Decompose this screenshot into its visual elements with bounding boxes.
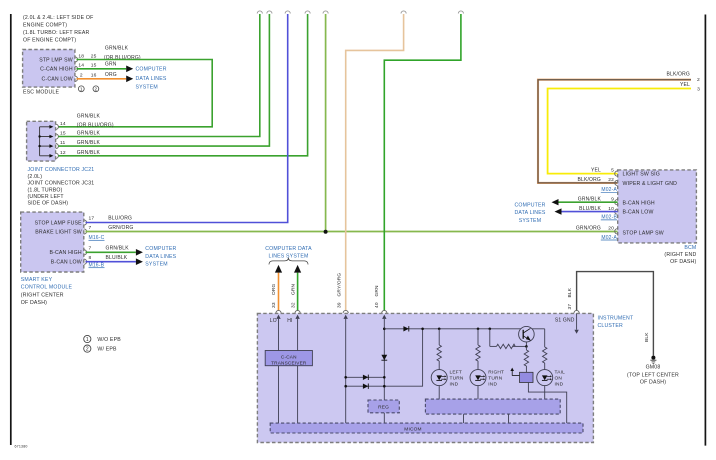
REG block xyxy=(368,400,399,413)
wire GRN/BLK: JC21 pin 11 up to top xyxy=(58,14,269,146)
svg-text:(1.8L TURBO): (1.8L TURBO) xyxy=(28,187,63,193)
node: computer data lines system (cluster) xyxy=(265,246,312,260)
wire ORG: data-lines arrow down to cluster pin 33 xyxy=(278,273,280,311)
wire: link pin39 to pin40 (upper) xyxy=(346,376,385,378)
svg-text:39: 39 xyxy=(336,302,342,308)
junction: GRN/ORG tap xyxy=(324,230,328,234)
BCM pin numbers 5 22 9 10 20 xyxy=(608,168,614,232)
svg-text:20: 20 xyxy=(608,226,614,232)
wire value labels for ESC rows xyxy=(104,46,141,78)
smart key pin numbers 17 7 7 8 xyxy=(89,215,95,261)
BCM box xyxy=(618,170,697,243)
svg-text:STOP LAMP SW: STOP LAMP SW xyxy=(623,231,664,237)
svg-text:CONTROL MODULE: CONTROL MODULE xyxy=(21,285,73,291)
svg-text:GRN/ORG: GRN/ORG xyxy=(108,225,133,231)
svg-text:ORG: ORG xyxy=(271,283,277,295)
svg-text:CLUSTER: CLUSTER xyxy=(598,323,624,329)
internal pin arrows (up) xyxy=(276,315,386,319)
svg-text:OF DASH): OF DASH) xyxy=(640,380,666,386)
svg-text:16: 16 xyxy=(91,73,97,79)
arrow up from cluster HI (GRN) xyxy=(294,265,301,273)
top edge connector bumps for riser wires xyxy=(257,11,463,14)
wire: bar stub 1 xyxy=(463,414,465,423)
wire BLU/BLK: arrow to BCM B-CAN LOW pin 10 xyxy=(562,211,618,213)
svg-text:SYSTEM: SYSTEM xyxy=(519,218,541,224)
JC21 pin bumps xyxy=(56,124,59,158)
svg-text:B-CAN HIGH: B-CAN HIGH xyxy=(623,200,655,206)
MICOM block xyxy=(270,423,583,433)
svg-text:ENGINE COMPT): ENGINE COMPT) xyxy=(23,22,67,28)
svg-text:TRANSCEIVER: TRANSCEIVER xyxy=(271,360,307,365)
LED tail on ind xyxy=(537,370,553,386)
connector ref M02-B xyxy=(601,215,618,221)
svg-text:22: 22 xyxy=(608,177,614,183)
svg-text:GRN/BLK: GRN/BLK xyxy=(106,246,130,252)
svg-text:INSTRUMENT: INSTRUMENT xyxy=(598,315,634,321)
ESC pin numbers 18 25 / 14 15 / 2 16 xyxy=(78,53,96,78)
svg-text:15: 15 xyxy=(91,63,97,69)
resistor R2 (right turn) xyxy=(476,329,480,370)
svg-text:5: 5 xyxy=(611,168,614,174)
wire: bar stub 2 xyxy=(508,414,510,423)
svg-text:8: 8 xyxy=(89,255,92,261)
svg-text:COMPUTER DATA: COMPUTER DATA xyxy=(265,246,312,252)
right page border xyxy=(704,15,706,446)
resistor R4 (vertical to driver) xyxy=(524,346,528,372)
junction dots on pin39/pin40 leads xyxy=(344,328,385,388)
svg-text:ESC MODULE: ESC MODULE xyxy=(23,90,59,96)
svg-text:B-CAN LOW: B-CAN LOW xyxy=(51,260,82,266)
svg-text:37: 37 xyxy=(567,304,573,310)
svg-text:BCM: BCM xyxy=(684,245,696,251)
svg-text:18: 18 xyxy=(78,53,84,59)
svg-text:JOINT CONNECTOR JC21: JOINT CONNECTOR JC21 xyxy=(28,167,95,173)
LED left turn ind xyxy=(431,370,447,386)
svg-text:W/ EPB: W/ EPB xyxy=(97,347,117,353)
junction: emitter node xyxy=(525,345,528,348)
svg-text:DATA LINES: DATA LINES xyxy=(514,210,545,216)
junction dots on rail xyxy=(421,328,491,331)
internal S1 GND stub with down arrow xyxy=(574,313,578,333)
diode D4 (right, on rail) xyxy=(403,326,408,331)
svg-text:SYSTEM: SYSTEM xyxy=(136,84,158,90)
legend marker 2: W/ EPB xyxy=(84,345,117,353)
smart key caption block xyxy=(21,277,73,306)
legend marker 1: W/O EPB xyxy=(84,335,122,343)
svg-text:TURN: TURN xyxy=(488,376,502,382)
JC21 bus junction dots xyxy=(38,135,40,137)
svg-text:2: 2 xyxy=(80,73,83,79)
arrow up from cluster LO (ORG) xyxy=(275,265,282,273)
variant marker 2 xyxy=(93,86,99,92)
wire: link pin39 through pin40 up to rail (lower) xyxy=(346,329,423,386)
logic bar block xyxy=(425,399,560,414)
svg-text:SMART KEY: SMART KEY xyxy=(21,277,53,283)
connector ref M02-A (top) xyxy=(601,187,618,193)
svg-text:2: 2 xyxy=(95,87,98,92)
svg-text:2: 2 xyxy=(697,77,700,83)
svg-text:GRN/ORG: GRN/ORG xyxy=(576,226,601,232)
svg-text:COMPUTER: COMPUTER xyxy=(514,202,545,208)
svg-text:(UNDER LEFT: (UNDER LEFT xyxy=(28,194,65,200)
instrument cluster caption xyxy=(598,315,634,329)
svg-text:STP LMP SW: STP LMP SW xyxy=(39,57,73,63)
svg-text:YEL: YEL xyxy=(680,82,690,88)
wire: left turn LED to bar xyxy=(438,386,440,400)
svg-text:(OR BLU/ORG): (OR BLU/ORG) xyxy=(77,122,114,128)
cluster pin bumps 33 32 39 40 37 xyxy=(276,310,579,313)
LED right turn ind xyxy=(470,370,486,386)
resistor R3 (base, horizontal) xyxy=(490,329,527,349)
arrow to computer data lines (B-CAN HIGH) xyxy=(136,249,143,256)
wire GRN/ORG: brake light sw pin 7 to BCM stop lamp sw pin 20 xyxy=(86,231,618,233)
wire: pin 39 lead down to MICOM xyxy=(345,319,347,423)
JC21 pin numbers 14 15 11 12 xyxy=(60,121,66,156)
arrow to computer data lines (B-CAN LOW) xyxy=(136,258,143,265)
svg-text:IND: IND xyxy=(555,382,564,388)
svg-text:7: 7 xyxy=(89,225,92,231)
wire BLU/BLK: smart key B-CAN LOW to arrow xyxy=(86,261,136,263)
svg-text:COMPUTER: COMPUTER xyxy=(145,246,176,252)
svg-text:LINES SYSTEM: LINES SYSTEM xyxy=(269,253,309,259)
node: computer data lines system (ESC) xyxy=(136,67,167,91)
variant marker 1 xyxy=(78,86,84,92)
instrument cluster box xyxy=(257,313,593,442)
svg-text:(RIGHT CENTER: (RIGHT CENTER xyxy=(21,292,64,298)
svg-text:STOP LAMP FUSE: STOP LAMP FUSE xyxy=(35,220,83,226)
svg-text:BRAKE LIGHT SW: BRAKE LIGHT SW xyxy=(35,230,82,236)
svg-text:(1.8L TURBO: LEFT REAR: (1.8L TURBO: LEFT REAR xyxy=(23,30,89,36)
svg-text:(TOP LEFT CENTER: (TOP LEFT CENTER xyxy=(627,373,679,379)
svg-text:14: 14 xyxy=(60,121,66,127)
wire GRN: ESC C-CAN HIGH to data-lines arrow xyxy=(77,68,127,70)
wire: tail LED to bar xyxy=(544,386,546,400)
arrow to computer data lines (C-CAN LOW) xyxy=(126,76,133,83)
wire ORG: ESC C-CAN LOW to data-lines arrow xyxy=(77,78,127,80)
arrow from computer data lines (BCM B-CAN LOW) xyxy=(555,208,562,214)
svg-text:GRN: GRN xyxy=(290,283,296,295)
svg-text:GRN: GRN xyxy=(105,62,117,68)
JC21 caption block xyxy=(28,167,95,207)
resistor R1 (left turn) xyxy=(437,329,441,370)
smart key wire value labels xyxy=(106,215,134,261)
svg-text:TURN: TURN xyxy=(450,376,464,382)
wire BLK: cluster S1 GND to ground xyxy=(577,272,654,356)
svg-text:BLK: BLK xyxy=(644,332,650,342)
svg-text:LIGHT SW SIG: LIGHT SW SIG xyxy=(623,172,661,178)
svg-text:C-CAN HIGH: C-CAN HIGH xyxy=(40,67,73,73)
diode D2 (right, upper link) xyxy=(363,375,368,380)
node: computer data lines system (smart key) xyxy=(145,246,176,267)
svg-text:BLK: BLK xyxy=(567,287,573,297)
joint connector JC21 box xyxy=(27,121,56,161)
connector ref M16-C xyxy=(89,235,105,241)
connector ref M16-B xyxy=(89,263,105,269)
wire GRN/BLK: JC21 pin 15 up to top xyxy=(58,14,259,137)
svg-text:2: 2 xyxy=(86,347,89,353)
svg-text:GRY/ORG: GRY/ORG xyxy=(336,273,342,297)
svg-text:1: 1 xyxy=(80,87,83,92)
svg-text:COMPUTER: COMPUTER xyxy=(136,67,167,73)
wire: REG stub xyxy=(383,413,385,423)
svg-text:OF DASH): OF DASH) xyxy=(21,300,47,306)
ESC pin bumps xyxy=(75,57,78,81)
diode D3 (right, lower link) xyxy=(363,384,368,389)
svg-text:B-CAN HIGH: B-CAN HIGH xyxy=(49,250,81,256)
node: computer data lines system (BCM) xyxy=(514,202,545,223)
svg-text:SIDE OF DASH): SIDE OF DASH) xyxy=(28,201,69,207)
svg-text:B-CAN LOW: B-CAN LOW xyxy=(623,210,654,216)
wire: HI lead into C-CAN transceiver and down to MICOM xyxy=(297,319,299,423)
svg-text:C-CAN LOW: C-CAN LOW xyxy=(41,77,72,83)
note: ESC location text xyxy=(23,15,93,44)
wire: right turn LED to bar xyxy=(477,386,479,400)
wire GRN/BLK: JC21 pin 12 up to top xyxy=(58,14,307,156)
svg-text:HI: HI xyxy=(287,318,292,324)
wire GRN/BLK: arrow to BCM B-CAN HIGH pin 9 xyxy=(559,201,618,203)
svg-text:BLK/ORG: BLK/ORG xyxy=(667,71,691,77)
JC21 wire value labels xyxy=(77,114,114,156)
wire GRN/BLK: smart key B-CAN HIGH to arrow xyxy=(86,251,136,253)
wire: supply rail xyxy=(384,328,544,330)
BCM pin bumps xyxy=(615,171,618,234)
svg-text:DATA LINES: DATA LINES xyxy=(145,254,176,260)
arrow from computer data lines (BCM B-CAN HIGH) xyxy=(552,199,559,205)
svg-text:(RIGHT END: (RIGHT END xyxy=(664,252,696,258)
svg-text:3: 3 xyxy=(697,86,700,92)
svg-text:LEFT: LEFT xyxy=(450,370,462,376)
svg-text:7: 7 xyxy=(89,246,92,252)
svg-text:LO: LO xyxy=(270,318,277,324)
BCM wire value labels xyxy=(576,168,602,232)
ESC module U1 box xyxy=(23,50,75,88)
svg-text:S1 GND: S1 GND xyxy=(555,318,575,324)
svg-text:ON: ON xyxy=(555,376,563,382)
svg-text:1: 1 xyxy=(86,337,89,343)
JC21 internal arrows xyxy=(49,125,53,158)
driver block (blue box) xyxy=(520,372,534,382)
svg-text:BLK/ORG: BLK/ORG xyxy=(578,177,602,183)
brace: computer data lines (cluster) xyxy=(269,258,308,265)
JC21 internal bus xyxy=(40,127,50,156)
svg-text:W/O EPB: W/O EPB xyxy=(97,337,121,343)
svg-text:DATA LINES: DATA LINES xyxy=(136,76,167,82)
wire YEL: page edge to BCM light sw sig pin 5 xyxy=(548,89,691,174)
svg-text:WIPER & LIGHT GND: WIPER & LIGHT GND xyxy=(623,181,678,187)
svg-text:ORG: ORG xyxy=(105,72,117,78)
wire GRN/BLK: ESC STP LMP SW to JC21 pin 14 xyxy=(58,60,212,127)
svg-text:REG: REG xyxy=(378,405,389,411)
ground GM08 xyxy=(650,356,656,364)
wire: driver output to MICOM xyxy=(528,383,566,424)
ground caption GM08 xyxy=(627,364,679,385)
svg-text:IND: IND xyxy=(488,382,497,388)
svg-text:25: 25 xyxy=(91,53,97,59)
diode D1 (down, on pin 40 lead) xyxy=(381,355,387,360)
svg-text:TAIL: TAIL xyxy=(555,370,566,376)
svg-text:32: 32 xyxy=(290,302,296,308)
svg-text:MICOM: MICOM xyxy=(404,427,421,433)
svg-text:OF DASH): OF DASH) xyxy=(670,259,696,265)
svg-text:BLU/ORG: BLU/ORG xyxy=(108,215,132,221)
svg-text:OF ENGINE COMPT): OF ENGINE COMPT) xyxy=(23,37,76,43)
C-CAN transceiver box xyxy=(265,351,312,366)
svg-text:IND: IND xyxy=(450,382,459,388)
label tail on ind xyxy=(555,370,566,388)
arrow to computer data lines (C-CAN HIGH) xyxy=(126,66,133,73)
smart key control module box xyxy=(21,212,84,272)
svg-text:BLU/BLK: BLU/BLK xyxy=(106,255,128,261)
svg-text:(2.0L & 2.4L: LEFT SIDE OF: (2.0L & 2.4L: LEFT SIDE OF xyxy=(23,15,93,21)
svg-text:GRN: GRN xyxy=(374,285,380,297)
label right turn ind xyxy=(488,370,504,388)
svg-text:14: 14 xyxy=(78,63,84,69)
connector ref M02-A (bottom) xyxy=(601,235,618,241)
svg-text:GRN/BLK: GRN/BLK xyxy=(105,46,129,52)
wire GRN: data-lines arrow down to cluster pin 32 xyxy=(297,273,299,311)
transistor Q1 xyxy=(519,326,535,346)
svg-text:SYSTEM: SYSTEM xyxy=(145,262,167,268)
label left turn ind xyxy=(450,370,464,388)
smart key pin bumps xyxy=(84,220,87,264)
left page border xyxy=(10,14,12,445)
input arrow to driver xyxy=(510,368,519,376)
wire: LO lead into C-CAN transceiver and down to MICOM xyxy=(278,319,280,423)
wire: pin 40 lead down to REG xyxy=(383,319,385,400)
BCM caption block xyxy=(664,245,696,265)
wire BLK/ORG: page edge to BCM wiper & light gnd pin 22 xyxy=(538,80,691,183)
svg-text:RIGHT: RIGHT xyxy=(488,370,504,376)
svg-text:(2.0L): (2.0L) xyxy=(28,174,43,180)
svg-text:GRN/BLK: GRN/BLK xyxy=(77,114,101,120)
svg-text:671380: 671380 xyxy=(15,445,28,449)
svg-text:C-CAN: C-CAN xyxy=(281,354,297,359)
svg-text:YEL: YEL xyxy=(591,168,601,174)
wire GRN: top of page to cluster pin 40 xyxy=(384,14,461,311)
wire GRN/ORG: riser to top of page xyxy=(325,14,327,232)
svg-text:17: 17 xyxy=(89,215,95,221)
svg-text:40: 40 xyxy=(374,302,380,308)
svg-text:33: 33 xyxy=(271,302,277,308)
wire BLU/ORG: stop lamp fuse pin 17 up to top xyxy=(86,14,288,223)
resistor R5 (tail) xyxy=(543,329,547,370)
wire GRY/ORG: top of page to cluster pin 39 xyxy=(346,14,404,311)
svg-text:JOINT CONNECTOR JC31: JOINT CONNECTOR JC31 xyxy=(28,181,95,187)
svg-text:GM08: GM08 xyxy=(646,364,661,370)
